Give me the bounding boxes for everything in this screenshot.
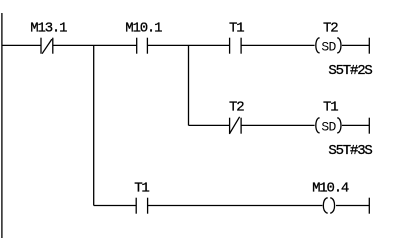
svg-text:T2: T2 [323,20,338,36]
svg-text:SD: SD [321,39,336,54]
svg-text:T2: T2 [229,100,244,116]
svg-text:SD: SD [321,119,336,134]
svg-text:M10.4: M10.4 [312,180,349,196]
svg-text:T1: T1 [323,100,338,116]
svg-text:M13.1: M13.1 [30,20,67,36]
svg-text:T1: T1 [229,20,244,36]
svg-text:T1: T1 [134,180,149,196]
svg-text:S5T#3S: S5T#3S [328,143,372,159]
svg-text:S5T#2S: S5T#2S [328,63,372,79]
svg-text:M10.1: M10.1 [125,20,162,36]
